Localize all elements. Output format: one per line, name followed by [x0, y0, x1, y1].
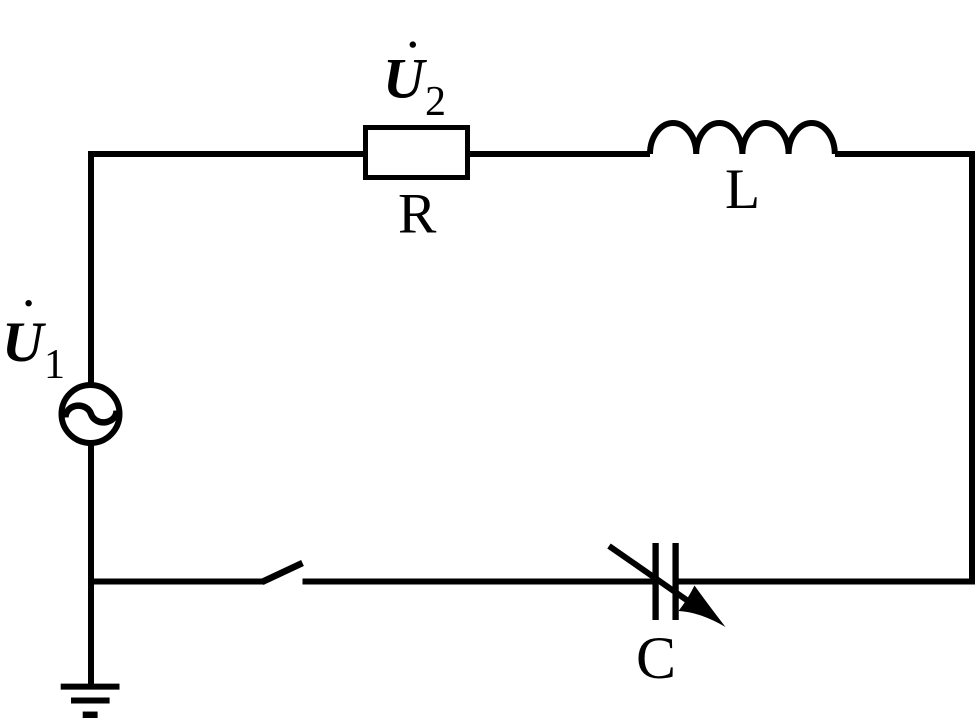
- svg-text:L: L: [725, 158, 760, 221]
- wire left-vertical-upper and top-left segment: [91, 154, 363, 388]
- svg-text:R: R: [398, 183, 437, 246]
- inductor L: [650, 123, 835, 154]
- capacitor variable arrow shaft: [609, 546, 700, 609]
- wire left-vertical-lower to ground: [88, 440, 94, 684]
- wire bottom-left segment to switch: [91, 579, 263, 585]
- capacitor C right plate: [672, 543, 678, 620]
- svg-text:C: C: [636, 625, 676, 691]
- ground: [61, 687, 120, 715]
- AC source U1 circle: [62, 385, 120, 443]
- capacitor variable arrow head: [679, 586, 726, 628]
- svg-text:U: U: [2, 311, 46, 374]
- wire inductor to top-right corner, right side, and bottom-right segment: [679, 154, 973, 582]
- svg-text:U: U: [383, 48, 427, 111]
- wire switch-to-capacitor: [303, 579, 654, 585]
- label U1 (phasor at source): [2, 300, 65, 388]
- switch blade: [262, 563, 303, 582]
- resistor R: [366, 128, 468, 178]
- label U2 (phasor over resistor): [383, 41, 446, 125]
- AC source sine wave: [65, 406, 116, 423]
- svg-text:2: 2: [425, 79, 446, 125]
- svg-text:1: 1: [44, 342, 65, 388]
- wire resistor-to-inductor: [470, 151, 650, 157]
- capacitor C left plate: [652, 543, 658, 620]
